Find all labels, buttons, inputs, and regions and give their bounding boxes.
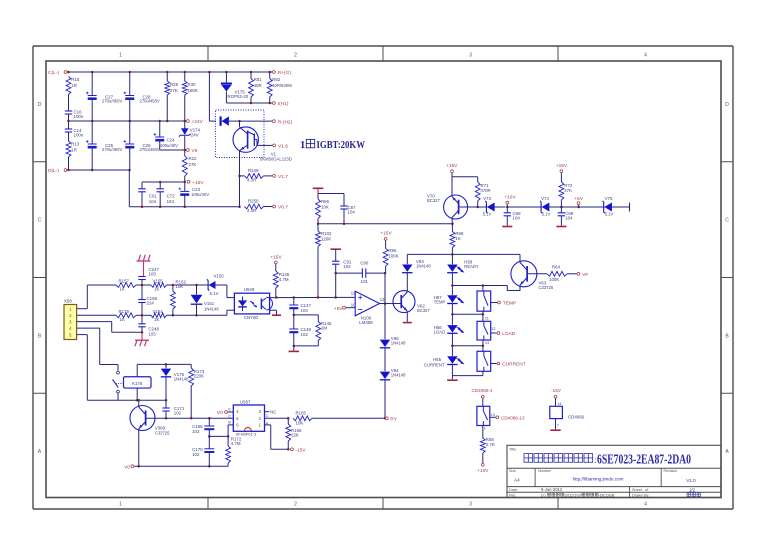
wire V1 emitter down xyxy=(238,151,241,207)
zener V150 xyxy=(207,274,227,296)
label CD4066 xyxy=(568,415,585,420)
wire row1 right xyxy=(167,284,210,287)
svg-text:LM358: LM358 xyxy=(359,320,373,325)
svg-text:270u/450V: 270u/450V xyxy=(102,99,122,104)
svg-text:R96: R96 xyxy=(388,248,397,253)
capacitor C67 xyxy=(340,205,356,224)
wire opamp output xyxy=(380,303,392,305)
wire V63 collector xyxy=(519,254,521,262)
frame outer border xyxy=(33,46,733,509)
svg-text:CD4066: CD4066 xyxy=(568,415,585,420)
svg-text:180K: 180K xyxy=(188,88,198,93)
resistor R68 1K xyxy=(450,224,464,255)
capacitor C171 xyxy=(162,400,185,419)
svg-text:LOAD: LOAD xyxy=(502,331,516,337)
svg-text:1N4148: 1N4148 xyxy=(391,373,406,378)
capacitor C68 xyxy=(502,207,521,227)
wire rail mid1 xyxy=(507,206,542,208)
port CD4066-1 xyxy=(472,388,493,398)
svg-text:E: E xyxy=(228,407,231,411)
svg-text:R250: R250 xyxy=(248,199,259,204)
svg-text:1: 1 xyxy=(119,53,122,59)
svg-text:104: 104 xyxy=(301,308,309,313)
svg-text:1: 1 xyxy=(300,140,305,151)
svg-text:1R: 1R xyxy=(71,83,77,88)
diode V93 xyxy=(402,254,431,292)
resistor R15 xyxy=(66,77,80,95)
resistor V154 xyxy=(151,309,167,322)
svg-text:V155: V155 xyxy=(153,279,164,284)
svg-text:C61: C61 xyxy=(149,194,158,199)
svg-text:Revision: Revision xyxy=(664,469,678,473)
svg-text:VF: VF xyxy=(582,272,588,278)
wire feedback down xyxy=(384,273,387,305)
led H55 CURRENT xyxy=(424,346,463,376)
svg-text:C: C xyxy=(725,218,729,224)
terminal +15V V70 xyxy=(446,163,458,173)
diode V151 xyxy=(191,285,220,315)
wire C14-R13 xyxy=(68,132,70,141)
diode IGBT freewheel xyxy=(221,116,240,125)
diode V175 1N4148 xyxy=(161,364,189,400)
resistor R102 xyxy=(316,224,332,298)
svg-text:12: 12 xyxy=(491,327,495,331)
svg-text:10: 10 xyxy=(351,303,356,308)
terminal +10V rail xyxy=(504,194,516,208)
svg-text:V151: V151 xyxy=(204,301,215,306)
svg-text:TEMP: TEMP xyxy=(503,301,516,307)
port -15V CD4066 xyxy=(551,388,562,398)
svg-text:R66: R66 xyxy=(321,199,330,204)
resistor R72 xyxy=(559,173,573,207)
transistor V1 IGBT xyxy=(233,121,258,152)
zener V75 xyxy=(603,196,630,217)
svg-text:7: 7 xyxy=(557,424,559,428)
svg-text:B: B xyxy=(228,421,231,425)
svg-text:V154: V154 xyxy=(153,309,164,314)
svg-text:9-Jun-2012: 9-Jun-2012 xyxy=(541,487,563,492)
svg-text:C90: C90 xyxy=(360,261,369,266)
svg-text:+15V: +15V xyxy=(270,254,282,260)
svg-text:SFH6P01-3: SFH6P01-3 xyxy=(236,431,258,436)
svg-text:CD4066-13: CD4066-13 xyxy=(501,416,525,421)
resistor R145 xyxy=(273,264,289,297)
terminal RY xyxy=(385,417,397,423)
wire X58 pin3 xyxy=(77,322,142,333)
analog switch CURRENT xyxy=(477,346,497,376)
wire collector node to R-(H2) xyxy=(238,120,272,123)
connector X58 xyxy=(64,298,77,339)
wire rail to R66 C67 xyxy=(318,194,344,207)
svg-text:104: 104 xyxy=(565,216,573,221)
resistor R82 xyxy=(267,72,292,103)
terminal +15V R72 xyxy=(556,163,568,173)
svg-text:K176: K176 xyxy=(132,381,143,386)
resistor R146 xyxy=(316,321,332,341)
svg-text:4.3R: 4.3R xyxy=(247,178,256,183)
frame inner border xyxy=(46,61,721,498)
terminal +5V rail xyxy=(574,196,583,208)
svg-text:BC327: BC327 xyxy=(427,198,440,203)
svg-text:V74: V74 xyxy=(541,196,549,201)
svg-text:U567: U567 xyxy=(240,399,251,404)
svg-text:V150: V150 xyxy=(214,274,225,279)
svg-text:2.7K: 2.7K xyxy=(486,442,495,447)
relay contact arm xyxy=(113,380,124,388)
svg-text:2: 2 xyxy=(294,53,297,59)
svg-text:+5V: +5V xyxy=(334,306,343,312)
zener V174 xyxy=(179,121,201,150)
svg-text:6SE7023-2EA87-2DA0: 6SE7023-2EA87-2DA0 xyxy=(597,451,691,466)
optocoupler U549 xyxy=(234,287,272,320)
capacitor C14 xyxy=(65,128,84,138)
wire RY long xyxy=(312,417,386,420)
resistor R173 xyxy=(189,364,205,418)
svg-text:V75: V75 xyxy=(605,196,613,201)
svg-text:1N4148: 1N4148 xyxy=(416,263,431,268)
svg-text:10K: 10K xyxy=(296,420,304,425)
capacitor C158 xyxy=(138,285,157,315)
terminal V1.7 xyxy=(273,174,289,180)
wire U567 pin6 down xyxy=(228,421,233,437)
svg-text:CURRENT: CURRENT xyxy=(424,362,445,367)
resistor R179 xyxy=(116,309,136,322)
svg-text:101: 101 xyxy=(361,279,369,284)
svg-text:R157: R157 xyxy=(119,279,130,284)
svg-text:+15V: +15V xyxy=(380,231,392,237)
analog switch TEMP xyxy=(477,286,497,315)
svg-text:R81: R81 xyxy=(254,77,263,82)
resistor R66 xyxy=(316,199,330,219)
svg-text:4.7M: 4.7M xyxy=(279,277,289,282)
svg-text:C24: C24 xyxy=(167,138,176,143)
svg-text:D(L-): D(L-) xyxy=(48,168,59,174)
wire V0 rail xyxy=(134,465,228,467)
svg-text:D: D xyxy=(725,102,729,108)
svg-text:RGP02-20: RGP02-20 xyxy=(228,94,249,99)
svg-text:104: 104 xyxy=(348,209,356,214)
wire bottom DL bus xyxy=(67,169,131,172)
svg-text:1K: 1K xyxy=(455,236,460,241)
svg-text:R29: R29 xyxy=(170,82,179,87)
wire chain bottom xyxy=(452,376,483,380)
wire V62 base xyxy=(391,303,401,305)
svg-text:11: 11 xyxy=(485,317,489,321)
svg-text:102: 102 xyxy=(343,264,351,269)
svg-text:Date:: Date: xyxy=(509,488,518,492)
diode V94 xyxy=(380,348,406,418)
svg-text:27K: 27K xyxy=(170,88,178,93)
svg-text:1R: 1R xyxy=(71,148,77,153)
wire C168 bottom node xyxy=(208,435,229,438)
terminal TEMP xyxy=(498,301,517,307)
wire X58 pin5 xyxy=(77,335,118,401)
svg-text:V73: V73 xyxy=(483,196,491,201)
svg-text:SKM50GAL123D: SKM50GAL123D xyxy=(260,156,292,161)
earth symbol lower xyxy=(135,340,149,346)
terminal V1.6 xyxy=(273,144,289,150)
svg-text:470R: 470R xyxy=(481,188,491,193)
capacitor C90 xyxy=(336,261,387,284)
terminal V0 U567 xyxy=(217,407,233,416)
svg-text:104: 104 xyxy=(167,199,175,204)
terminal R-(H2) xyxy=(273,119,293,125)
wire ready rail xyxy=(407,253,520,256)
svg-text:102: 102 xyxy=(192,429,200,434)
rail bar above C91 xyxy=(330,249,341,261)
terminal CURRENT xyxy=(497,362,526,368)
svg-text:\2011\1\07-: \2011\1\07- xyxy=(564,494,584,498)
svg-text:13: 13 xyxy=(380,297,385,302)
wire C148 R146 bottom xyxy=(293,341,319,348)
wire V70 collector to bus xyxy=(451,218,453,224)
svg-text:X58: X58 xyxy=(64,298,72,303)
earth symbol upper xyxy=(137,255,151,277)
net label D(L-) xyxy=(48,168,67,174)
wire end stub xyxy=(629,203,631,212)
svg-text:http://libaming.jimdo.com: http://libaming.jimdo.com xyxy=(573,477,624,482)
svg-text:V1.6: V1.6 xyxy=(278,144,288,150)
svg-text:120K: 120K xyxy=(321,237,331,242)
capacitor C148 xyxy=(289,315,311,346)
wire R15-C16 xyxy=(68,95,70,112)
title block grid xyxy=(507,445,721,497)
svg-text:100K: 100K xyxy=(388,254,398,259)
wire U567 pin1 A xyxy=(265,422,289,450)
wire X58 pin2 xyxy=(77,314,116,316)
wire switch ctl rail xyxy=(451,284,507,287)
terminal V0 bottom xyxy=(124,464,134,470)
resistor R96 xyxy=(383,241,399,274)
wire V9 node xyxy=(160,149,186,152)
svg-text:-DE.DDB: -DE.DDB xyxy=(599,494,615,498)
resistor R64 xyxy=(527,265,576,282)
resistor R166 xyxy=(286,418,302,450)
ic CD4066 power xyxy=(550,399,563,430)
wire chain node3 xyxy=(451,345,484,348)
net label C(L-) xyxy=(48,70,67,76)
terminal -15V R166 xyxy=(291,447,307,453)
number url xyxy=(573,477,624,482)
frame zone labels xyxy=(38,53,730,508)
resistor R157 xyxy=(116,279,136,292)
wire V369 emitter xyxy=(138,429,141,467)
svg-text:C72: C72 xyxy=(167,194,176,199)
svg-text:5.1V: 5.1V xyxy=(605,211,614,216)
svg-text:2: 2 xyxy=(294,502,297,508)
svg-text:File:: File: xyxy=(509,494,516,498)
wire row1 mid xyxy=(136,284,151,287)
resistor R152 xyxy=(171,279,187,315)
svg-text:+15V: +15V xyxy=(192,180,204,186)
IGBT module dashed box V1 xyxy=(216,110,265,158)
op-amp N100 LM358 xyxy=(351,291,385,326)
capacitor C23 xyxy=(179,187,210,207)
svg-text:10K: 10K xyxy=(321,205,329,210)
svg-text:R13: R13 xyxy=(71,142,80,147)
terminal +15V R145 xyxy=(270,254,282,264)
wire base V369 row xyxy=(146,417,234,420)
label V1 SKM50GAL123D xyxy=(260,152,292,162)
transistor V63 C33725 xyxy=(511,261,554,290)
terminal CD4066-13 xyxy=(496,416,525,421)
svg-text:3: 3 xyxy=(469,53,472,59)
transistor V70 BC327 xyxy=(427,194,468,220)
svg-text:1N4148: 1N4148 xyxy=(174,376,189,381)
capacitor C27 xyxy=(86,72,122,121)
wire cap bank top xyxy=(142,181,185,192)
svg-text:5.1V: 5.1V xyxy=(483,211,492,216)
resistor R30 xyxy=(182,72,197,121)
terminal +10V bottom xyxy=(477,463,489,473)
led H56 LOAD xyxy=(434,314,464,346)
svg-text:V0: V0 xyxy=(217,410,223,416)
wire R13-DL xyxy=(68,157,70,170)
svg-text:103: 103 xyxy=(149,271,157,276)
wire coil bottom rail xyxy=(118,399,167,402)
svg-text:+15V: +15V xyxy=(446,163,458,169)
resistor R22 xyxy=(182,150,197,182)
svg-text:R22: R22 xyxy=(189,156,198,161)
resistor V155 xyxy=(151,279,167,292)
svg-text:3: 3 xyxy=(469,502,472,508)
svg-text:4: 4 xyxy=(644,502,647,508)
svg-text:13: 13 xyxy=(491,413,495,417)
wire to opto pin1 xyxy=(227,285,235,298)
resistor R29 xyxy=(165,72,179,121)
wire rail mid2 xyxy=(561,206,604,208)
relay contact circles xyxy=(117,371,120,393)
svg-text:R102: R102 xyxy=(321,231,332,236)
resistor R71 xyxy=(475,177,490,209)
wire long bus xyxy=(318,223,454,226)
revision V1.0 xyxy=(686,478,696,483)
svg-text:4.3R: 4.3R xyxy=(247,208,256,213)
svg-text:1M: 1M xyxy=(321,326,327,331)
svg-text:4.7M: 4.7M xyxy=(231,441,241,446)
svg-text:100K: 100K xyxy=(549,277,559,282)
svg-text:NC: NC xyxy=(270,409,276,414)
svg-text:CD4066-1: CD4066-1 xyxy=(472,388,493,393)
svg-text:C33725: C33725 xyxy=(539,285,554,290)
svg-text:+5V: +5V xyxy=(574,196,583,202)
svg-text:5.1V: 5.1V xyxy=(210,291,219,296)
title text 6SE7023-2EA87-2DA0 xyxy=(597,451,691,466)
svg-text:CNY60: CNY60 xyxy=(244,315,259,320)
wire opamp plus input xyxy=(270,296,356,299)
resistor R68 2.7K xyxy=(480,426,495,464)
zener V74 xyxy=(540,196,563,217)
diode V95 xyxy=(380,304,406,348)
wire bus to IGBT xyxy=(209,72,216,121)
svg-text:TEMP: TEMP xyxy=(434,299,446,304)
svg-text:IGBT:20KW: IGBT:20KW xyxy=(317,140,366,151)
svg-text:1K: 1K xyxy=(154,317,159,322)
capacitor C25 xyxy=(86,121,122,170)
svg-text:+15V: +15V xyxy=(556,163,568,169)
terminal I(H1) xyxy=(273,101,289,107)
capacitor C16 xyxy=(65,110,84,120)
svg-text:BC327: BC327 xyxy=(417,308,430,313)
svg-text:R249: R249 xyxy=(248,168,259,173)
svg-text:102: 102 xyxy=(192,452,200,457)
svg-text:5.1V: 5.1V xyxy=(542,211,551,216)
svg-text:220K: 220K xyxy=(194,374,204,379)
svg-text:-15V: -15V xyxy=(551,388,562,393)
rail bar R66 top xyxy=(313,188,324,193)
svg-text:R64: R64 xyxy=(552,265,561,270)
svg-text:Sheet of: Sheet of xyxy=(632,488,649,492)
svg-text:+24V: +24V xyxy=(192,119,204,125)
wire V1.6 xyxy=(257,140,272,146)
svg-text:1K: 1K xyxy=(154,287,159,292)
size A4 xyxy=(514,478,520,483)
wire +15V to V70 R71 xyxy=(452,173,478,197)
svg-text:C33725: C33725 xyxy=(155,430,170,435)
label NC pin3 xyxy=(265,409,277,414)
label U567 pin5 C xyxy=(228,414,231,418)
svg-text:100u/40V: 100u/40V xyxy=(160,143,178,148)
resistor R172 xyxy=(226,436,242,466)
svg-text:V9: V9 xyxy=(192,148,198,154)
wire V70 base node xyxy=(459,206,478,208)
svg-text:A4: A4 xyxy=(514,478,520,483)
relay K176 xyxy=(124,377,152,388)
wire chain node2 xyxy=(451,313,484,316)
resistor R165 xyxy=(293,411,312,426)
wire K176 bottom xyxy=(136,388,139,401)
svg-text:Number: Number xyxy=(538,469,552,473)
svg-text:27K: 27K xyxy=(189,162,197,167)
terminal V9 xyxy=(186,148,197,154)
transistor V369 C33725 xyxy=(130,406,170,436)
capacitor C248 xyxy=(138,315,159,340)
svg-text:104: 104 xyxy=(513,216,521,221)
svg-text:24V: 24V xyxy=(191,132,199,137)
drawn by value 李柏明 xyxy=(687,493,700,496)
svg-text:103: 103 xyxy=(148,332,156,337)
svg-text:U549: U549 xyxy=(244,287,255,292)
svg-text:R15: R15 xyxy=(71,77,80,82)
capacitor C24 xyxy=(154,121,179,150)
svg-text:11: 11 xyxy=(351,291,356,296)
svg-text:RY: RY xyxy=(390,417,397,423)
capacitor C28 xyxy=(124,72,160,121)
svg-text:270u/450V: 270u/450V xyxy=(140,147,160,152)
svg-text:+10V: +10V xyxy=(504,194,516,200)
resistor R13 xyxy=(66,141,80,157)
terminal LOAD xyxy=(497,331,516,337)
svg-text:4: 4 xyxy=(644,53,647,59)
svg-text:H55: H55 xyxy=(433,357,442,362)
led H57 TEMP xyxy=(434,286,464,315)
capacitor C247 xyxy=(138,267,159,285)
svg-text:R165: R165 xyxy=(296,411,307,416)
svg-text:14: 14 xyxy=(557,402,561,406)
capacitor C147 xyxy=(289,298,311,315)
svg-text:V1.7: V1.7 xyxy=(278,174,288,180)
wire row2 mid xyxy=(136,314,151,317)
svg-text:V0.7: V0.7 xyxy=(278,205,288,211)
diode V175 RGP02-20 xyxy=(221,72,249,103)
terminal V0.7 xyxy=(273,205,289,211)
capacitor C170 xyxy=(192,436,214,467)
wire U567 output xyxy=(265,414,290,420)
led H58 READY xyxy=(447,254,479,285)
svg-text:270u/450V: 270u/450V xyxy=(140,99,160,104)
svg-text:V0: V0 xyxy=(124,464,130,470)
terminal VF xyxy=(577,272,588,278)
